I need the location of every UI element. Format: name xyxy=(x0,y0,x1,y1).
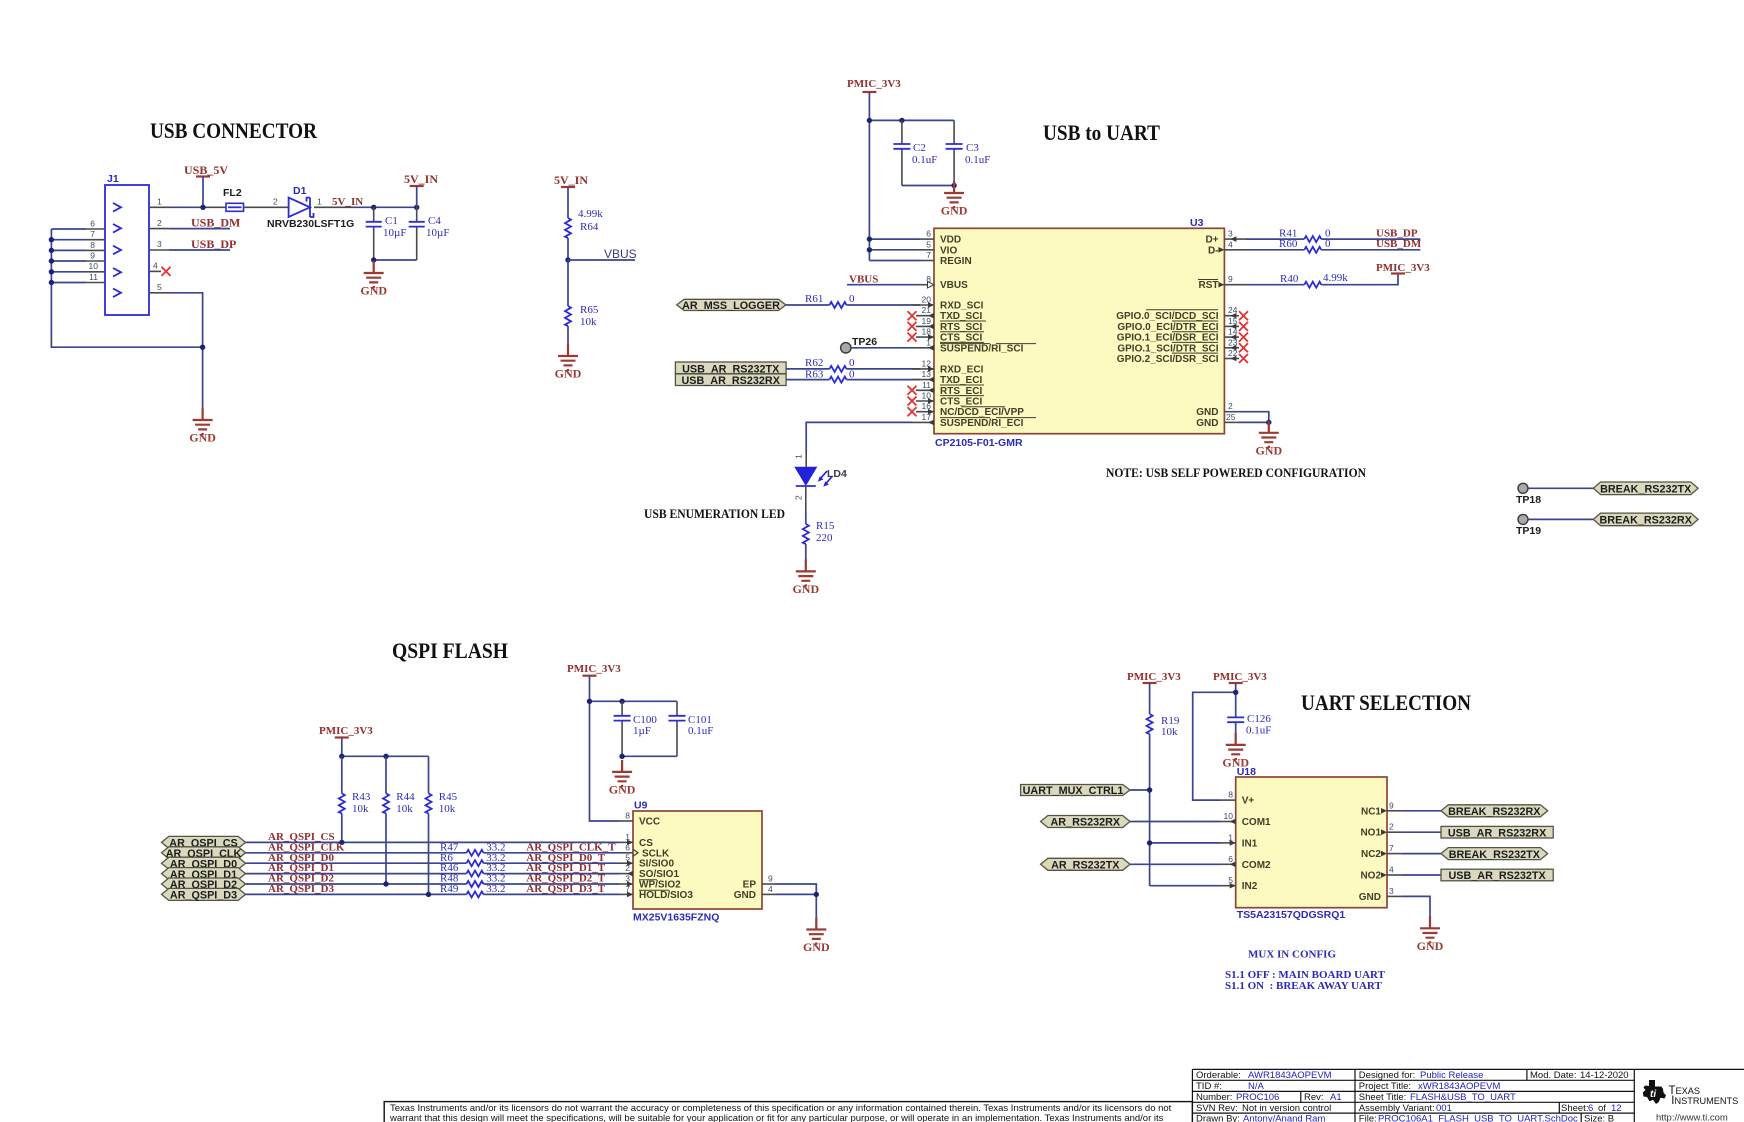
disclaimer box xyxy=(384,1102,1192,1122)
svg-text:7: 7 xyxy=(926,250,931,260)
junction at 589.5,701.3 xyxy=(587,699,592,704)
U3 pin 24 GPIO.0_SCI + X xyxy=(1224,305,1248,320)
junction IN1 xyxy=(1147,840,1152,845)
power symbol PMIC_3V3 (R40) xyxy=(1376,262,1430,274)
resistor R19 10k xyxy=(1147,714,1180,886)
U3 pin 12 RXD_ECI xyxy=(912,358,934,371)
svg-text:4: 4 xyxy=(768,884,773,894)
svg-text:USB_DM: USB_DM xyxy=(191,216,240,230)
junction R19/CTRL xyxy=(1147,787,1152,792)
svg-text:10k: 10k xyxy=(1161,726,1178,738)
svg-text:5V_IN: 5V_IN xyxy=(332,196,363,208)
wire NO1 to USB_AR_RS232RX xyxy=(1401,831,1441,833)
ground GND (U9) xyxy=(803,918,830,955)
wire C1-C4 bottoms xyxy=(374,259,417,261)
pin 3 of J1 xyxy=(149,239,169,250)
title block row 4 xyxy=(1196,1103,1622,1114)
svg-text:D+: D+ xyxy=(1205,235,1218,246)
diode D1 xyxy=(267,185,354,230)
svg-text:ti: ti xyxy=(1650,1089,1656,1100)
op-amp U3 body xyxy=(934,217,1224,449)
svg-text:USB_DM: USB_DM xyxy=(1376,238,1422,250)
svg-text:1: 1 xyxy=(794,454,804,459)
svg-text:1: 1 xyxy=(317,197,322,207)
ground GND (U18) xyxy=(1417,916,1444,953)
U9 pin 3 WP/SIO2 xyxy=(619,874,633,887)
svg-text:TP19: TP19 xyxy=(1516,525,1541,537)
svg-text:AR_MSS_LOGGER: AR_MSS_LOGGER xyxy=(682,300,780,312)
net tag BREAK_RS232TX (TP18) xyxy=(1593,482,1698,496)
svg-text:13: 13 xyxy=(922,369,932,379)
U9 pin 7 HOLD/SIO3 xyxy=(619,884,633,897)
svg-text:VIO: VIO xyxy=(940,245,957,256)
svg-text:xWR1843AOPEVM: xWR1843AOPEVM xyxy=(1418,1081,1500,1092)
svg-text:220: 220 xyxy=(816,532,833,544)
LED LD4 xyxy=(794,454,847,500)
svg-text:AR_QSPI_D3_T: AR_QSPI_D3_T xyxy=(526,883,606,895)
U3 pin 1 SUSPEND/RI_SCI xyxy=(912,337,934,350)
net tag AR_RS232RX xyxy=(1041,816,1130,829)
svg-text:4: 4 xyxy=(153,261,158,271)
pin 2 of J1 xyxy=(149,218,169,229)
U9 pin 8 VCC xyxy=(619,811,633,822)
svg-text:10µF: 10µF xyxy=(383,227,406,239)
svg-text:TP26: TP26 xyxy=(852,336,877,348)
svg-text:SO/SIO1: SO/SIO1 xyxy=(639,869,679,880)
svg-text:AR_RS232TX: AR_RS232TX xyxy=(1051,860,1120,872)
svg-text:PMIC_3V3: PMIC_3V3 xyxy=(567,663,621,675)
wire FL2 to D1 xyxy=(244,206,289,208)
U3 pin 7 REGIN xyxy=(920,250,934,261)
title block row 2 xyxy=(1196,1081,1500,1092)
svg-text:R64: R64 xyxy=(580,221,599,233)
junction R44 top xyxy=(383,754,388,759)
svg-text:0.1uF: 0.1uF xyxy=(965,154,990,166)
svg-text:GND: GND xyxy=(1196,407,1218,418)
capacitor C4 xyxy=(409,207,450,260)
U3 pin 2 GND xyxy=(1224,401,1238,412)
svg-text:0: 0 xyxy=(849,368,855,380)
U18 pin 5 IN2 xyxy=(1222,875,1236,888)
svg-text:C4: C4 xyxy=(428,215,441,227)
svg-text:6: 6 xyxy=(1588,1103,1593,1114)
svg-text:RXD_ECI: RXD_ECI xyxy=(940,364,984,375)
junction VIO xyxy=(867,247,872,252)
wire UART_MUX_CTRL1 to R19 net xyxy=(1130,789,1150,791)
wire AR_QSPI_CLK + resistor R47 33.2 xyxy=(246,841,620,855)
U9 pin 6 SCLK xyxy=(619,842,638,856)
svg-text:10µF: 10µF xyxy=(426,227,449,239)
svg-text:R40: R40 xyxy=(1280,273,1299,285)
svg-text:PROC106: PROC106 xyxy=(1236,1092,1279,1103)
svg-text:10k: 10k xyxy=(439,803,456,815)
wire pullup rail xyxy=(342,755,429,757)
svg-text:R63: R63 xyxy=(805,368,824,380)
U9 pin 9 EP xyxy=(762,874,776,885)
capacitor C2 xyxy=(893,120,937,185)
U9 internal pin labels xyxy=(639,817,756,901)
power symbol PMIC_3V3 (C126) xyxy=(1213,671,1267,717)
svg-text:USB_DP: USB_DP xyxy=(191,237,236,251)
svg-text:NO1: NO1 xyxy=(1360,828,1381,839)
wire C2-C3 bottoms xyxy=(902,185,954,187)
svg-text:8: 8 xyxy=(90,240,95,250)
net tag USB_AR_RS232TX (U18) xyxy=(1441,869,1553,882)
power symbol PMIC_3V3 (C2/C3) xyxy=(847,78,901,261)
U18 internal pin labels xyxy=(1242,796,1382,903)
svg-text:BREAK_RS232TX: BREAK_RS232TX xyxy=(1449,849,1541,861)
wire V+ feed xyxy=(1193,692,1236,800)
svg-text:USB_AR_RS232TX: USB_AR_RS232TX xyxy=(1448,870,1546,882)
resistor R62 0 xyxy=(786,357,920,372)
svg-text:2: 2 xyxy=(625,863,630,873)
svg-text:IN1: IN1 xyxy=(1242,838,1258,849)
svg-text:AWR1843AOPEVM: AWR1843AOPEVM xyxy=(1248,1070,1332,1081)
resistor R63 0 xyxy=(786,368,920,382)
svg-text:R44: R44 xyxy=(396,791,415,803)
svg-text:10: 10 xyxy=(922,391,932,401)
resistor R65 10k xyxy=(565,260,599,356)
svg-text:R43: R43 xyxy=(352,791,371,803)
svg-text:N/A: N/A xyxy=(1248,1081,1265,1092)
wire AR_QSPI_CS xyxy=(246,831,620,845)
svg-text:J1: J1 xyxy=(107,173,119,185)
U3 pin 17 SUSPEND/RI_ECI xyxy=(912,412,934,425)
svg-text:7: 7 xyxy=(1389,843,1394,853)
resistor R15 220 xyxy=(803,520,835,571)
power symbol 5V_IN (above C4) xyxy=(404,172,438,207)
net tag AR_QSPI_D0 xyxy=(162,857,246,870)
net tag BREAK_RS232TX (U18) xyxy=(1441,848,1548,861)
svg-text:TS5A23157QDGSRQ1: TS5A23157QDGSRQ1 xyxy=(1237,909,1346,921)
wire PMIC to VCC and caps xyxy=(590,701,678,821)
svg-text:6: 6 xyxy=(90,218,95,228)
junction EP/GND xyxy=(814,892,819,897)
svg-text:VCC: VCC xyxy=(639,817,660,828)
junction dots on shield bus xyxy=(49,237,54,285)
resistor R41 0 xyxy=(1246,228,1420,243)
svg-text:GPIO.2_SCI/DSR_SCI: GPIO.2_SCI/DSR_SCI xyxy=(1117,354,1219,365)
svg-text:10k: 10k xyxy=(580,316,597,328)
svg-text:CTS_ECI: CTS_ECI xyxy=(940,397,982,408)
svg-text:0.1uF: 0.1uF xyxy=(912,154,937,166)
svg-text:SVN Rev:: SVN Rev: xyxy=(1196,1103,1238,1114)
U18 pin 10 COM1 xyxy=(1222,811,1236,824)
net tag USB_AR_RS232TX xyxy=(675,362,786,375)
U18 pin 8 V+ xyxy=(1222,790,1236,801)
svg-text:GND: GND xyxy=(1196,418,1218,429)
U3 pin 23 GPIO.1_SCI + X xyxy=(1224,337,1248,352)
net tag BREAK_RS232RX (U18) xyxy=(1441,805,1548,818)
junction at rail/vertical xyxy=(867,118,872,123)
title block row 5 xyxy=(1196,1113,1614,1122)
svg-text:2: 2 xyxy=(794,495,804,500)
title block row 1 xyxy=(1196,1070,1629,1081)
U9 pin 2 SO/SIO1 xyxy=(619,863,633,876)
svg-text:NRVB230LSFT1G: NRVB230LSFT1G xyxy=(267,218,354,230)
svg-text:A1: A1 xyxy=(1330,1092,1342,1103)
svg-text:EP: EP xyxy=(743,880,757,891)
svg-text:6: 6 xyxy=(926,229,931,239)
resistor R60 0 xyxy=(1246,238,1422,253)
svg-text:RXD_SCI: RXD_SCI xyxy=(940,301,984,312)
wire to IN2 xyxy=(1150,885,1222,887)
junction pin5/shield xyxy=(200,345,205,350)
title block grid xyxy=(1192,1069,1744,1122)
svg-text:GND: GND xyxy=(734,890,756,901)
U3 pin 18 CTS_SCI + X xyxy=(908,327,935,342)
svg-text:CS: CS xyxy=(639,838,653,849)
svg-text:C2: C2 xyxy=(913,142,926,154)
U3 pin 5 VIO xyxy=(920,239,934,250)
svg-text:11: 11 xyxy=(922,380,931,390)
wire AR_RS232RX to COM1 xyxy=(1130,821,1222,823)
U3 pin 4 D- xyxy=(1218,239,1246,252)
svg-text:Project Title:: Project Title: xyxy=(1359,1081,1411,1092)
svg-text:8: 8 xyxy=(625,811,630,821)
svg-text:C3: C3 xyxy=(966,142,979,154)
svg-text:9: 9 xyxy=(90,250,95,260)
svg-text:9: 9 xyxy=(1228,274,1233,284)
U3 pin 6 VDD xyxy=(920,229,934,240)
svg-text:File:: File: xyxy=(1359,1113,1377,1122)
power symbol PMIC_3V3 (R43-R45) xyxy=(319,725,373,756)
svg-text:10: 10 xyxy=(89,261,99,271)
capacitor C126 xyxy=(1227,713,1271,745)
svg-text:HOLD/SIO3: HOLD/SIO3 xyxy=(639,890,693,901)
svg-text:0.1uF: 0.1uF xyxy=(1246,725,1271,737)
svg-text:SUSPEND/RI_SCI: SUSPEND/RI_SCI xyxy=(940,343,1024,354)
svg-text:R62: R62 xyxy=(805,357,823,369)
svg-text:19: 19 xyxy=(922,316,932,326)
junction at C100 top xyxy=(619,699,624,704)
ground GND (C3) xyxy=(941,181,968,218)
svg-text:12: 12 xyxy=(922,358,932,368)
svg-text:C1: C1 xyxy=(385,215,398,227)
svg-text:VBUS: VBUS xyxy=(849,274,878,286)
svg-text:5: 5 xyxy=(157,282,162,292)
no-connect X on J1 pin 4 xyxy=(162,267,171,276)
svg-text:PMIC_3V3: PMIC_3V3 xyxy=(1213,671,1267,683)
U3 pin 16 NC/DCD_ECI/VPP + X xyxy=(908,401,935,416)
svg-text:U18: U18 xyxy=(1237,766,1256,778)
svg-text:R15: R15 xyxy=(816,520,835,532)
U18 pin 4 NO2 xyxy=(1381,865,1401,878)
net tag USB_AR_RS232RX xyxy=(675,374,786,387)
wire NC1 to BREAK_RS232RX xyxy=(1401,810,1441,812)
svg-text:10k: 10k xyxy=(352,803,369,815)
svg-text:2: 2 xyxy=(1228,401,1233,411)
svg-text:Sheet:: Sheet: xyxy=(1561,1103,1588,1114)
svg-text:9: 9 xyxy=(1389,800,1394,810)
svg-text:11: 11 xyxy=(89,272,98,282)
svg-text:R49: R49 xyxy=(440,883,459,895)
svg-text:U3: U3 xyxy=(1190,217,1204,229)
net tag BREAK_RS232RX (TP19) xyxy=(1593,513,1698,527)
resistor R40 4.99k xyxy=(1246,272,1398,288)
svg-text:NC1: NC1 xyxy=(1361,806,1381,817)
svg-text:20: 20 xyxy=(922,295,932,305)
svg-text:SI/SIO0: SI/SIO0 xyxy=(639,859,674,870)
svg-text:10: 10 xyxy=(1224,811,1234,821)
U9 pin 5 SI/SIO0 xyxy=(619,853,633,866)
svg-text:1µF: 1µF xyxy=(633,725,651,737)
svg-text:1: 1 xyxy=(926,337,931,347)
svg-text:2: 2 xyxy=(273,197,278,207)
svg-text:3: 3 xyxy=(157,239,162,249)
wire AR_RS232TX to COM2 xyxy=(1130,863,1222,865)
svg-text:8: 8 xyxy=(1228,790,1233,800)
resistor R43 10k xyxy=(339,756,371,842)
svg-text:BREAK_RS232TX: BREAK_RS232TX xyxy=(1600,484,1692,496)
svg-text:PMIC_3V3: PMIC_3V3 xyxy=(1376,262,1430,274)
svg-text:Drawn By:: Drawn By: xyxy=(1196,1113,1240,1122)
svg-text:Number:: Number: xyxy=(1196,1092,1232,1103)
net tag AR_RS232TX xyxy=(1041,858,1130,871)
svg-text:MX25V1635FZNQ: MX25V1635FZNQ xyxy=(633,912,719,924)
svg-text:TXD_ECI: TXD_ECI xyxy=(940,375,982,386)
svg-text:VBUS: VBUS xyxy=(940,280,968,291)
node VBUS xyxy=(565,247,636,263)
net tag AR_QSPI_CLK xyxy=(162,847,246,860)
wire to IN1 xyxy=(1150,842,1222,844)
svg-text:COM1: COM1 xyxy=(1242,817,1271,828)
test point TP26 xyxy=(841,336,878,353)
svg-text:NOTE: USB SELF POWERED CONFIGU: NOTE: USB SELF POWERED CONFIGURATION xyxy=(1106,465,1367,480)
ground GND (R15) xyxy=(792,559,819,596)
svg-text:16: 16 xyxy=(922,401,932,411)
svg-text:17: 17 xyxy=(922,412,932,422)
net tag AR_QSPI_D3 xyxy=(162,888,246,901)
wire U18 GND xyxy=(1401,896,1430,928)
capacitor C3 xyxy=(946,120,991,185)
U3 pin 10 CTS_ECI + X xyxy=(908,391,935,406)
svg-text:NC2: NC2 xyxy=(1361,849,1381,860)
svg-text:U9: U9 xyxy=(634,800,648,812)
U3 pin 22 GPIO.2_SCI + X xyxy=(1224,348,1248,363)
capacitor C100 xyxy=(614,701,658,756)
power symbol 5V_IN (divider) xyxy=(554,173,588,218)
svg-text:IN2: IN2 xyxy=(1242,881,1258,892)
svg-text:4: 4 xyxy=(1389,865,1394,875)
wire EP/GND to ground xyxy=(776,884,816,929)
svg-text:LD4: LD4 xyxy=(827,468,847,480)
svg-text:WP/SIO2: WP/SIO2 xyxy=(639,880,681,891)
U3 pin 25 GND xyxy=(1224,412,1238,423)
resistor R44 10k xyxy=(383,756,415,884)
svg-text:Assembly Variant:: Assembly Variant: xyxy=(1359,1103,1435,1114)
svg-text:USB CONNECTOR: USB CONNECTOR xyxy=(150,118,318,143)
memory U9 body xyxy=(633,800,762,924)
svg-text:Sheet Title:: Sheet Title: xyxy=(1359,1092,1407,1103)
wire U3 GND pins xyxy=(1238,412,1269,433)
svg-text:AR_RS232RX: AR_RS232RX xyxy=(1050,817,1120,829)
svg-text:C126: C126 xyxy=(1247,713,1271,725)
U18 pin 7 NC2 xyxy=(1381,843,1401,856)
svg-text:6: 6 xyxy=(625,842,630,852)
junction VDD xyxy=(867,236,872,241)
wire AR_QSPI_D3 + resistor R49 33.2 xyxy=(246,883,620,897)
svg-text:USB ENUMERATION LED: USB ENUMERATION LED xyxy=(644,506,785,521)
U18 pin 2 NO1 xyxy=(1381,822,1401,835)
svg-text:Orderable:: Orderable: xyxy=(1196,1070,1241,1081)
net tag USB_AR_RS232RX (U18) xyxy=(1441,826,1553,839)
svg-text:QSPI FLASH: QSPI FLASH xyxy=(392,638,508,663)
svg-text:S1.1 ON : BREAK AWAY UART: S1.1 ON : BREAK AWAY UART xyxy=(1225,980,1382,992)
svg-text:USB to UART: USB to UART xyxy=(1043,120,1160,145)
svg-text:1: 1 xyxy=(157,197,162,207)
svg-text:UART_MUX_CTRL1: UART_MUX_CTRL1 xyxy=(1023,785,1124,797)
U3 pin 14 GPIO.1_ECI + X xyxy=(1224,327,1248,342)
svg-text:BREAK_RS232RX: BREAK_RS232RX xyxy=(1448,806,1541,818)
net tag AR_QSPI_D2 xyxy=(162,878,246,891)
svg-text:2: 2 xyxy=(157,218,162,228)
svg-text:4: 4 xyxy=(1228,239,1233,249)
power symbol PMIC_3V3 (U9) xyxy=(567,663,621,701)
pin 5 of J1 xyxy=(149,282,169,293)
svg-text:33.2: 33.2 xyxy=(486,883,505,895)
svg-text:USB_5V: USB_5V xyxy=(184,163,228,177)
svg-text:R60: R60 xyxy=(1279,238,1298,250)
svg-text:PMIC_3V3: PMIC_3V3 xyxy=(1127,671,1181,683)
wire TP26 to pin 1 xyxy=(851,347,912,349)
svg-text:R65: R65 xyxy=(580,304,599,316)
svg-text:VBUS: VBUS xyxy=(604,247,637,261)
svg-text:V+: V+ xyxy=(1242,796,1255,807)
wire LED to R15 xyxy=(805,486,807,512)
svg-text:PMIC_3V3: PMIC_3V3 xyxy=(319,725,373,737)
svg-text:5V_IN: 5V_IN xyxy=(554,173,588,187)
svg-text:COM2: COM2 xyxy=(1242,860,1271,871)
svg-text:MUX IN CONFIG: MUX IN CONFIG xyxy=(1248,949,1336,961)
svg-text:USB_AR_RS232RX: USB_AR_RS232RX xyxy=(1448,827,1547,839)
capacitor C1 xyxy=(366,207,407,260)
svg-text:5: 5 xyxy=(926,239,931,249)
junction at C1 bottom xyxy=(371,257,376,262)
U3 pin 9 RST xyxy=(1218,274,1246,287)
svg-text:7: 7 xyxy=(90,229,95,239)
junction node USB_5V / pin1 xyxy=(200,205,205,210)
svg-text:TID #:: TID #: xyxy=(1196,1081,1222,1092)
wire VBUS to U3 xyxy=(847,284,920,286)
svg-text:http://www.ti.com: http://www.ti.com xyxy=(1656,1113,1728,1122)
junction at C4 top xyxy=(414,205,419,210)
connector J1 xyxy=(105,173,149,315)
fuse FL2 xyxy=(223,187,244,211)
svg-text:18: 18 xyxy=(922,327,932,337)
junction R43 top xyxy=(339,754,344,759)
mux U18 body xyxy=(1236,766,1387,921)
svg-text:of: of xyxy=(1598,1103,1606,1114)
U18 pin 3 GND xyxy=(1387,886,1401,897)
junction at C2 top xyxy=(899,118,904,123)
U3 pin 11 RTS_ECI + X xyxy=(908,380,935,395)
svg-text:10k: 10k xyxy=(396,803,413,815)
svg-text:4.99k: 4.99k xyxy=(578,208,603,220)
svg-text:SCLK: SCLK xyxy=(642,848,670,859)
pin 4 of J1 xyxy=(149,261,161,272)
ground GND (C126) xyxy=(1222,733,1249,770)
ground GND (J1) xyxy=(189,408,216,445)
svg-text:PROC106A1_FLASH_USB_TO_UART.Sc: PROC106A1_FLASH_USB_TO_UART.SchDoc xyxy=(1378,1113,1578,1122)
svg-text:D1: D1 xyxy=(293,185,307,197)
svg-text:R61: R61 xyxy=(805,293,823,305)
wire USB_DM xyxy=(169,228,230,230)
svg-text:0: 0 xyxy=(1325,238,1331,250)
svg-text:CP2105-F01-GMR: CP2105-F01-GMR xyxy=(935,437,1023,449)
svg-text:3: 3 xyxy=(1228,229,1233,239)
svg-text:0.1uF: 0.1uF xyxy=(688,725,713,737)
